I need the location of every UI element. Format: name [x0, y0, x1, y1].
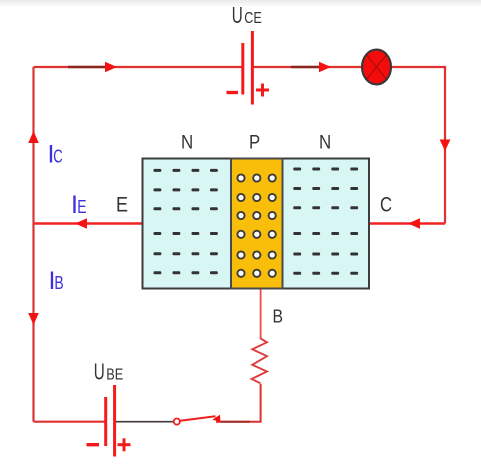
- wire: emitter horizontal from block to left wire: [34, 222, 143, 224]
- electrons (dashes) in right N region: [293, 168, 358, 275]
- resistor R (zigzag): [252, 339, 267, 384]
- transistor body: N region left (outer rect): [143, 159, 370, 289]
- arrow: current direction on right wire (down): [440, 140, 451, 152]
- label IC (blue): [48, 140, 63, 168]
- transistor body: P region middle: [231, 159, 283, 289]
- arrow: current direction on top wire (right): [105, 62, 117, 72]
- battery U_BE: minus sign: [87, 443, 100, 446]
- wire: right vertical from corner down to collector wire: [444, 67, 446, 224]
- svg-text:B: B: [54, 273, 63, 293]
- label U_CE: [232, 2, 262, 28]
- battery U_BE: long positive plate: [113, 385, 116, 457]
- svg-text:P: P: [249, 133, 260, 154]
- arrow: collector current (left): [408, 218, 420, 229]
- battery U_CE: minus sign: [227, 91, 239, 94]
- battery U_BE: short negative plate: [104, 397, 107, 446]
- svg-text:BE: BE: [106, 367, 123, 384]
- svg-text:U: U: [232, 2, 243, 28]
- wire: from switch contact to bottom-right corner and up to resistor: [216, 384, 261, 422]
- svg-text:E: E: [116, 194, 128, 217]
- svg-text:CE: CE: [244, 10, 261, 27]
- battery U_BE: plus sign: [118, 438, 131, 451]
- label U_BE: [94, 359, 124, 385]
- arrow: IC current on left wire (up): [28, 131, 39, 143]
- svg-text:N: N: [181, 133, 193, 154]
- wire: top horizontal from left corner to UCE battery: [34, 66, 243, 68]
- wire: base wire from P region down to resistor: [260, 290, 262, 340]
- battery U_CE: short negative plate: [241, 43, 244, 95]
- wire: left vertical full height: [32, 67, 34, 422]
- battery U_CE: long positive plate: [251, 31, 254, 105]
- arrow: current direction before lamp (right): [319, 62, 331, 72]
- electrons (dashes) in left N region: [154, 169, 218, 274]
- svg-text:U: U: [94, 359, 105, 385]
- lamp (red indicator with X): [362, 50, 391, 85]
- svg-text:C: C: [53, 146, 63, 166]
- wire: dark segment from UBE battery to switch: [116, 421, 173, 423]
- wire: bottom horizontal from left corner to UBE battery: [34, 421, 105, 423]
- arrow: emitter current (left): [75, 218, 87, 229]
- wire: collector horizontal into C terminal: [370, 222, 446, 224]
- svg-text:C: C: [380, 194, 392, 217]
- svg-text:N: N: [319, 133, 331, 154]
- wire: top horizontal from UCE battery to lamp: [254, 66, 363, 68]
- holes (circles) in P region: [237, 174, 275, 277]
- switch: contact mark (small arrowhead): [213, 415, 221, 423]
- svg-text:B: B: [273, 307, 284, 327]
- svg-text:E: E: [77, 197, 86, 217]
- battery U_CE: plus sign: [256, 84, 269, 97]
- switch: open contact circle: [174, 419, 180, 425]
- arrow: IB current on left wire (down): [28, 313, 39, 325]
- switch: blade: [180, 416, 215, 421]
- label IB (blue): [49, 267, 64, 295]
- wire: top horizontal from lamp to top-right corner: [391, 67, 446, 70]
- label IE (blue): [71, 191, 87, 219]
